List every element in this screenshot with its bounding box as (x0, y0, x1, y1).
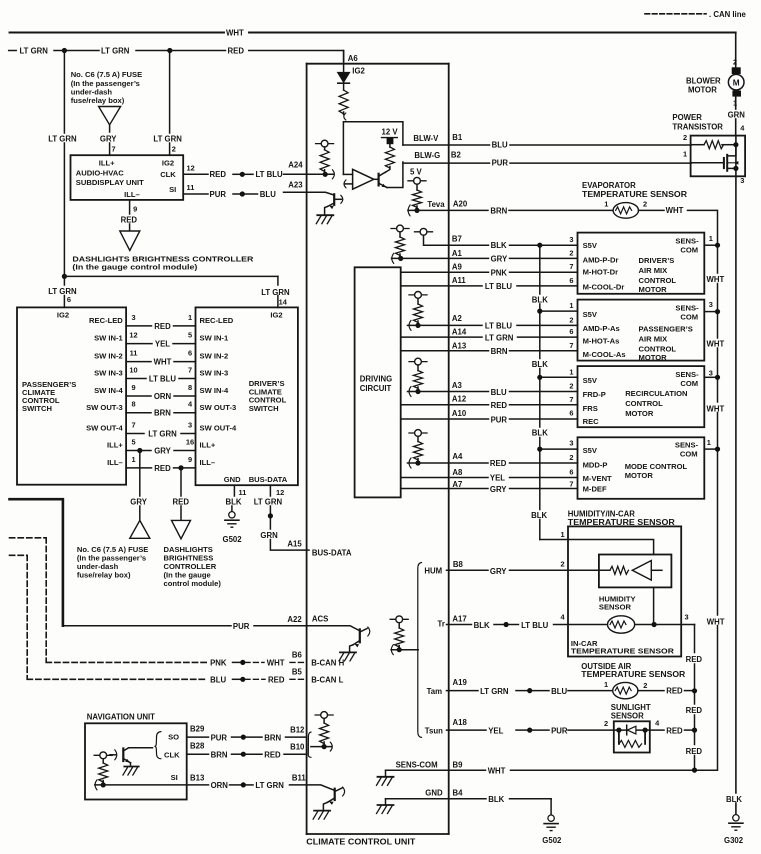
node dot LT GRN junction 2 (167, 48, 172, 53)
svg-text:2: 2 (172, 144, 176, 153)
label LT GRN (right stem) (153, 135, 182, 144)
ground G6 (sens-com) (377, 777, 394, 786)
svg-text:BRN: BRN (211, 751, 228, 760)
svg-text:COM: COM (680, 379, 698, 388)
svg-text:1: 1 (561, 530, 565, 539)
wire (516, 690, 528, 692)
svg-text:MOTOR: MOTOR (688, 85, 717, 94)
svg-text:RED: RED (210, 170, 227, 179)
label GND (B4) (425, 789, 443, 798)
svg-text:WHT: WHT (707, 617, 725, 626)
supply 12V bar (382, 137, 398, 139)
svg-text:LT GRN: LT GRN (148, 429, 177, 438)
label BLK 4 (531, 511, 547, 520)
dashlights connector triangle (RED) (120, 231, 140, 251)
svg-text:WHT: WHT (707, 404, 725, 413)
svg-text:ILL–: ILL– (124, 190, 140, 199)
wire (233, 173, 241, 175)
box passenger's air mix control motor M3 (578, 300, 705, 361)
label M-HOT-Dr (583, 268, 618, 277)
svg-text:B11: B11 (292, 773, 307, 782)
label IN-CAR TEMPERATURE SENSOR (571, 639, 675, 656)
label 2 (outside pin) (643, 681, 647, 690)
wire to edge (284, 753, 307, 755)
label SUNLIGHT SENSOR (611, 703, 651, 720)
wire A19 LT GRN (447, 690, 479, 692)
node dot outside/RED (692, 688, 697, 693)
svg-text:LT BLU: LT BLU (149, 374, 177, 383)
pull-up 5V (A24) (316, 140, 334, 147)
svg-text:WHT: WHT (154, 358, 172, 367)
svg-text:DRIVING: DRIVING (360, 374, 393, 383)
svg-text:11: 11 (130, 349, 138, 358)
node dot A19 splice (527, 688, 532, 693)
wire pin2 inside (691, 144, 704, 146)
svg-text:A24: A24 (288, 161, 303, 170)
wire power transistor to G302 line (735, 136, 737, 815)
node dot A4 pull-up (415, 460, 420, 465)
svg-text:M-VENT: M-VENT (583, 474, 612, 483)
label LT GRN (pass IG2) (48, 287, 77, 296)
label GRY (B8) (490, 567, 507, 576)
svg-text:GRY: GRY (490, 485, 507, 494)
svg-text:control module): control module) (164, 579, 222, 588)
label A18 (453, 718, 468, 727)
label B4 (453, 789, 464, 798)
svg-text:RED: RED (666, 686, 683, 695)
wire SW IN-1 between switches (YEL) (94, 331, 229, 349)
label 1 (humidity pin) (561, 530, 565, 539)
label 5 V (Teva) (410, 167, 423, 176)
node dot BLK pass (537, 309, 542, 314)
svg-text:TEMPERATURE SENSOR: TEMPERATURE SENSOR (581, 670, 685, 679)
svg-text:BLU: BLU (491, 388, 507, 397)
text dashlights note 2 (164, 545, 222, 588)
svg-text:MODE CONTROL: MODE CONTROL (625, 462, 688, 471)
label BLK 1 (532, 295, 548, 304)
svg-text:LT GRN: LT GRN (480, 687, 509, 696)
wire to pin3 (654, 624, 695, 626)
wire bus to A15 (270, 540, 306, 551)
svg-text:RED: RED (666, 726, 683, 735)
pull-up (nav) (94, 752, 112, 759)
label B29 (190, 725, 205, 734)
wire BLK to drv motor pin3 (540, 244, 578, 246)
node dot A3 pull-up (415, 389, 420, 394)
svg-text:COM: COM (680, 313, 698, 322)
box humidity/in-car sensor (568, 526, 681, 656)
label BLK 3 (532, 429, 548, 438)
label PUR (A22) (233, 622, 250, 631)
svg-text:BRN: BRN (491, 347, 508, 356)
wire resistor to drain node (722, 144, 736, 146)
svg-text:A1: A1 (452, 249, 463, 258)
B12/B10 brace (308, 732, 311, 757)
wire BUS-DATA pin12 stem (269, 485, 271, 496)
svg-text:BRN: BRN (264, 733, 281, 742)
svg-text:RED: RED (154, 322, 171, 331)
svg-text:12: 12 (276, 488, 284, 497)
svg-text:12 V: 12 V (382, 127, 399, 136)
transistor Q6 emitter (323, 798, 334, 810)
wire ILL- pin9 stem (129, 200, 131, 214)
svg-text:IG2: IG2 (270, 311, 282, 320)
wire SW OUT-3 between switches (BRN) (86, 400, 236, 418)
svg-text:1: 1 (604, 680, 608, 689)
svg-text:IG2: IG2 (352, 67, 365, 76)
label BLK (B4) (488, 795, 504, 804)
wire RED drop (180, 468, 182, 521)
wire BLK vertical bus (539, 245, 541, 539)
text DASHLIGHTS BRIGHTNESS CONTROLLER (72, 254, 254, 263)
connector bracket Teva (408, 205, 410, 216)
label GND (switch) (224, 475, 241, 484)
label MODE CONTROL MOTOR (625, 462, 688, 480)
svg-text:BRN: BRN (154, 409, 171, 418)
svg-text:GRY: GRY (130, 497, 147, 506)
wire B-CAN H dashed left (10, 538, 47, 662)
node dot drv sens-com (715, 243, 720, 248)
CAN line legend (dashed) (645, 13, 706, 15)
svg-text:16: 16 (186, 438, 194, 447)
svg-text:SENS-: SENS- (675, 370, 699, 379)
label ACS (312, 615, 328, 624)
label RED (drop) (173, 497, 190, 506)
label pin 4 (740, 124, 745, 133)
svg-text:MOTOR: MOTOR (625, 471, 654, 480)
svg-text:MDD-P: MDD-P (583, 460, 608, 469)
label BUS-DATA (switch) (249, 475, 288, 484)
wire BLK into pin1 (540, 540, 654, 555)
wire RED vertical (694, 625, 696, 771)
label CLIMATE CONTROL UNIT (306, 838, 415, 847)
wire (532, 690, 549, 692)
svg-text:7: 7 (131, 421, 135, 430)
node dot LT GRN junction 1 (62, 48, 67, 53)
svg-text:SW IN-1: SW IN-1 (200, 334, 229, 343)
svg-text:2: 2 (733, 57, 737, 66)
svg-text:A3: A3 (452, 381, 463, 390)
wire resistor to wire (324, 170, 326, 175)
wire (416, 206, 418, 210)
wire A18 YEL (447, 729, 487, 731)
svg-text:SI: SI (169, 185, 176, 194)
wire BLK to mode pin3 (540, 448, 578, 450)
svg-text:CLK: CLK (164, 751, 180, 760)
CAN line legend text (709, 10, 746, 19)
wire LT GRN stub (9, 50, 17, 52)
node dot nav pull-up (101, 782, 106, 787)
svg-text:1: 1 (709, 234, 713, 243)
svg-text:fuse/relay box): fuse/relay box) (77, 571, 131, 580)
svg-text:A6: A6 (348, 54, 359, 63)
svg-text:6: 6 (569, 276, 573, 285)
label M-COOL-As (583, 350, 626, 359)
label 4 (sun pin) (655, 719, 660, 728)
label 3 (mode pin) (569, 439, 573, 448)
label BUS-DATA (A15) (312, 548, 352, 557)
label RECIRCULATION CONTROL MOTOR (625, 389, 687, 418)
transistor Q5 emitter (123, 759, 130, 766)
transistor Q1 base bar (374, 174, 379, 186)
nav brace (154, 732, 160, 759)
svg-text:LT GRN: LT GRN (254, 497, 283, 506)
resistor R11 (A3) (414, 371, 423, 389)
wire BLW-V B1 BLU (403, 144, 691, 146)
box recirculation control motor M4 (578, 366, 705, 427)
svg-text:LT GRN: LT GRN (153, 135, 182, 144)
blower motor M1 (728, 74, 744, 90)
svg-text:RED: RED (121, 215, 138, 224)
svg-text:B12: B12 (290, 726, 305, 735)
svg-text:B8: B8 (453, 560, 464, 569)
svg-text:B13: B13 (190, 773, 205, 782)
label 1 (drv sens) (709, 234, 713, 243)
box driver climate control switch (196, 307, 298, 485)
svg-text:8: 8 (188, 383, 192, 392)
wire to sunlight box (568, 729, 613, 731)
svg-text:SW OUT-4: SW OUT-4 (200, 424, 237, 433)
label WHT (evap wire) (666, 206, 684, 215)
label LT GRN (on left vertical) (48, 135, 77, 144)
label PUR (B29) (211, 733, 228, 742)
svg-text:PUR: PUR (211, 733, 228, 742)
label B-CAN L (311, 675, 343, 684)
svg-text:fuse/relay box): fuse/relay box) (71, 96, 125, 105)
wire LT GRN stem pin2 (169, 51, 171, 156)
svg-text:GRY: GRY (491, 255, 508, 264)
wire B-CAN L dashed (27, 678, 207, 680)
label A17 (452, 615, 466, 624)
svg-text:Tam: Tam (427, 687, 443, 696)
svg-text:GRY: GRY (490, 567, 507, 576)
svg-text:3: 3 (709, 368, 713, 377)
wire B29 PUR (187, 736, 209, 738)
wire pull-up stem (324, 147, 326, 150)
svg-text:BLK: BLK (726, 795, 742, 804)
wire nav SI (95, 784, 187, 786)
wire A8 YEL (401, 467, 578, 482)
svg-text:SW OUT-4: SW OUT-4 (86, 424, 123, 433)
label BLK (B7) (491, 241, 507, 250)
svg-text:IG2: IG2 (57, 311, 69, 320)
label A20 (453, 199, 468, 208)
svg-text:SENS-: SENS- (675, 303, 699, 312)
label 3 (in-car pin) (685, 613, 689, 622)
amplifier A1 (humidity) (632, 561, 662, 581)
svg-text:RED: RED (264, 751, 281, 760)
svg-text:AUDIO-HVAC: AUDIO-HVAC (76, 168, 124, 177)
svg-text:LT GRN: LT GRN (20, 47, 49, 56)
wire pass sens-com (704, 311, 717, 313)
label B2 (451, 150, 462, 159)
svg-text:8: 8 (131, 400, 135, 409)
wire pull-up to sens bracket (391, 649, 418, 651)
svg-text:A17: A17 (452, 615, 466, 624)
wire (494, 624, 504, 626)
wire (136, 50, 170, 52)
svg-text:COM: COM (680, 450, 698, 459)
wire A10 PUR (401, 409, 578, 425)
pull-up 5V (A3) (409, 358, 427, 365)
resistor R10 (A2) (414, 304, 423, 322)
svg-text:PUR: PUR (233, 622, 250, 631)
label pin 1 (power transistor) (683, 150, 687, 159)
node dot Teva junction (414, 208, 419, 213)
node dot bus splice (268, 513, 273, 518)
svg-text:RECIRCULATION: RECIRCULATION (625, 389, 687, 398)
svg-text:6: 6 (188, 349, 192, 358)
dashlights connector triangle RED (172, 520, 191, 538)
svg-text:RED: RED (228, 47, 245, 56)
wire BLK to G502 (550, 799, 552, 815)
svg-text:SENS-COM: SENS-COM (396, 760, 438, 769)
diode D1 (IG2) (338, 72, 350, 83)
svg-text:A2: A2 (452, 314, 463, 323)
svg-text:LT BLU: LT BLU (256, 170, 284, 179)
wire (399, 254, 401, 258)
svg-text:GRY: GRY (154, 446, 171, 455)
transistor Q2 collector stub (334, 195, 343, 203)
svg-text:1: 1 (604, 199, 608, 208)
svg-text:SW IN-2: SW IN-2 (200, 352, 229, 361)
wire ILL&#8211; between switches (RED) (107, 455, 215, 473)
svg-text:2: 2 (569, 453, 573, 462)
transistor Q3 source (727, 161, 738, 168)
text fuse note (71, 70, 142, 105)
svg-text:TRANSISTOR: TRANSISTOR (672, 123, 723, 132)
label B1 (452, 133, 463, 142)
node dot BLK mode (537, 447, 542, 452)
label A24 (288, 161, 303, 170)
wire ACS inside (307, 626, 359, 631)
svg-text:WHT: WHT (666, 206, 684, 215)
svg-text:CONTROL: CONTROL (625, 399, 663, 408)
label EVAPORATOR TEMPERATURE SENSOR (582, 181, 687, 199)
wire stem (102, 759, 104, 763)
label LT BLU (CLK wire) (256, 170, 284, 179)
wire B7 from pull-up (424, 235, 449, 245)
fuse connector triangle (GRY feed) (99, 107, 121, 125)
svg-text:YEL: YEL (155, 340, 170, 349)
svg-text:SW IN-3: SW IN-3 (200, 369, 229, 378)
wire sun out (651, 729, 664, 731)
wire base stub (110, 754, 116, 756)
label B10 (290, 743, 305, 752)
label WHT (sens line 1) (707, 275, 725, 284)
pull-up 5V (A4) (409, 430, 427, 437)
svg-text:WHT: WHT (267, 658, 285, 667)
connector bracket A24 end (332, 170, 334, 179)
svg-text:3: 3 (709, 300, 713, 309)
svg-text:RED: RED (686, 747, 703, 756)
svg-text:B29: B29 (190, 725, 205, 734)
wire sun inner (614, 729, 650, 731)
svg-text:1: 1 (569, 301, 573, 310)
svg-text:RED: RED (268, 675, 285, 684)
label BLOWER MOTOR (686, 76, 721, 94)
svg-text:1: 1 (188, 313, 192, 322)
resistor R2 (12V collector) (385, 147, 394, 168)
wire feed L (thick) (10, 499, 63, 626)
svg-text:SUBDISPLAY UNIT: SUBDISPLAY UNIT (76, 178, 144, 187)
svg-text:M: M (733, 78, 740, 87)
wire gnd stem (385, 770, 387, 777)
label SUBDISPLAY UNIT (76, 178, 144, 187)
label BLK (G302) (726, 795, 742, 804)
wire A11 LT BLU (401, 276, 578, 291)
label A15 (287, 539, 302, 548)
text fuse note 2 (77, 545, 148, 580)
connector bracket A4 (409, 458, 411, 468)
svg-text:G502: G502 (542, 836, 562, 845)
svg-text:7: 7 (112, 144, 116, 153)
svg-text:BLW-V: BLW-V (413, 134, 439, 143)
photodiode D2 (sunlight) (627, 725, 636, 735)
label RED (B10) (264, 751, 281, 760)
svg-text:3: 3 (188, 421, 192, 430)
svg-text:CLK: CLK (160, 170, 176, 179)
svg-text:G302: G302 (724, 836, 744, 845)
svg-text:M-COOL-As: M-COOL-As (583, 350, 626, 359)
svg-text:2: 2 (683, 133, 687, 142)
transistor Q1 emitter (379, 183, 387, 189)
node dot sun right (643, 728, 648, 733)
svg-text:2: 2 (561, 559, 565, 568)
svg-text:WHT: WHT (707, 340, 725, 349)
wire bus drop (269, 506, 271, 529)
svg-text:ILL+: ILL+ (107, 441, 123, 450)
blower motor terminal top (732, 67, 741, 74)
wire (246, 784, 254, 786)
svg-text:LT GRN: LT GRN (261, 288, 290, 297)
connector bracket ACS (391, 645, 393, 655)
wire stem (417, 365, 419, 371)
svg-text:FRD-P: FRD-P (583, 390, 606, 399)
svg-text:HUM: HUM (424, 566, 442, 575)
label 6 (pass IG2 pin) (67, 295, 71, 304)
svg-text:BRN: BRN (490, 206, 507, 215)
node dot recirc sens-com (715, 375, 720, 380)
svg-text:2: 2 (569, 382, 573, 391)
ground G1 (Q2 emitter) (316, 215, 333, 224)
label SENS-COM (pass) (675, 303, 699, 321)
resistor R5 (Teva pull-up) (413, 190, 422, 207)
wire A23 into unit (284, 192, 334, 195)
svg-text:PUR: PUR (210, 190, 227, 199)
svg-text:DRIVER’S: DRIVER’S (639, 256, 675, 265)
svg-text:LT BLU: LT BLU (485, 321, 513, 330)
wire (233, 193, 241, 195)
wire (532, 729, 549, 731)
pull-up 5V (ACS) (390, 616, 408, 623)
label pin 1 (blower) (733, 98, 737, 107)
box humidity sensor inner (599, 555, 672, 588)
wire A17 BLK (447, 624, 472, 626)
svg-text:LT GRN: LT GRN (485, 333, 514, 342)
transistor Q4 emitter (350, 641, 360, 652)
svg-text:12: 12 (187, 163, 195, 172)
svg-text:BLOWER: BLOWER (686, 76, 721, 85)
label SI (nav) (171, 773, 178, 782)
svg-text:7: 7 (569, 395, 573, 404)
label SENS-COM (drv) (675, 236, 699, 254)
transistor Q2 base bar (333, 194, 335, 205)
resistor R13 (humidity) (610, 566, 629, 574)
svg-text:SW IN-4: SW IN-4 (200, 386, 229, 395)
svg-text:BLK: BLK (531, 511, 547, 520)
wire B-CAN L dashed left (10, 555, 28, 679)
